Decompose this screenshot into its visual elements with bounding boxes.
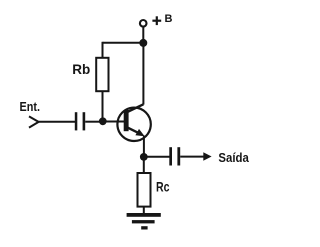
junction: base node [99,117,107,125]
wire: C2 to output arrow [180,156,204,158]
wire: emitter lead [143,136,145,158]
wire: base lead [103,121,126,123]
terminal +B [140,20,147,27]
resistor Rc [138,173,151,207]
svg-text:Rb: Rb [72,61,90,77]
capacitor C1 [75,112,85,130]
ground [127,213,161,230]
output arrow [203,152,211,161]
capacitor C2 [169,147,180,165]
wire: C1 to base node [85,121,101,123]
svg-text:B: B [165,13,173,25]
input terminal arrow [29,116,39,127]
svg-text:Rc: Rc [156,179,170,195]
resistor Rb [96,58,108,91]
wire: down to Rb top [102,42,104,59]
svg-text:Saída: Saída [218,151,249,165]
junction: collector/Rb node [139,39,147,47]
junction: emitter/Rc node [140,153,148,161]
label +B [152,16,161,25]
wire: node to C2 [144,156,170,158]
transistor Q1 [117,104,150,141]
svg-text:Ent.: Ent. [20,99,41,114]
wire: top horizontal to Rb [103,42,144,44]
wire: Rc to ground [143,207,145,214]
wire: input to C1 [39,121,76,123]
wire: Rb bottom to base node [102,91,104,121]
wire: +B lead [142,27,144,44]
wire: node to Rc [143,157,145,174]
wire: collector lead [142,43,144,105]
